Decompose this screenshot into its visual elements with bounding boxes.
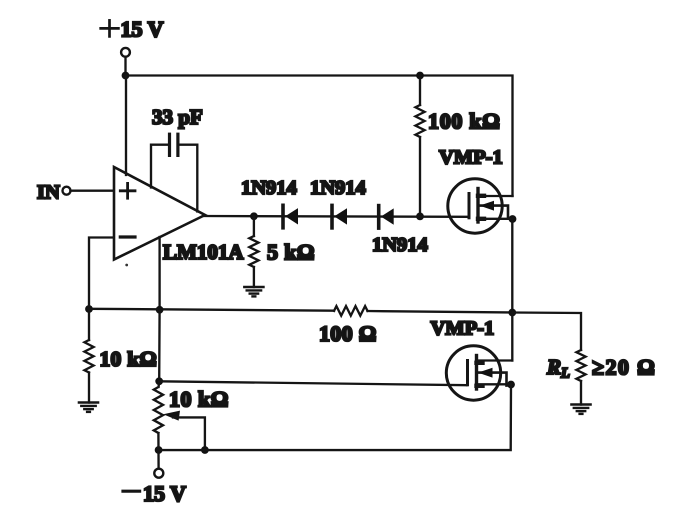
svg-text:VMP-1: VMP-1 xyxy=(439,147,503,169)
node pot bottom xyxy=(155,446,163,454)
wire 10k bottom lead xyxy=(88,373,90,403)
wire Q2 source lead xyxy=(477,383,512,385)
node V- line crossing xyxy=(156,306,164,314)
node Q2 source junction xyxy=(507,381,515,389)
resistor 100 kOhm xyxy=(415,105,424,137)
diode D1 1N914 xyxy=(283,205,298,228)
label 1N914 third xyxy=(372,234,428,256)
svg-text:1N914: 1N914 xyxy=(372,234,428,256)
node inverting input xyxy=(85,305,93,313)
wire 10k top lead xyxy=(88,309,90,340)
resistor RL xyxy=(576,350,585,381)
capacitor C1 33 pF xyxy=(170,134,178,155)
transistor Q1 VMP-1 xyxy=(448,179,508,233)
wire Q1 source lead xyxy=(478,218,513,220)
label IN xyxy=(37,182,60,204)
svg-text:15 V: 15 V xyxy=(121,17,164,42)
svg-text:≥20 Ω: ≥20 Ω xyxy=(592,355,656,380)
svg-text:10 kΩ: 10 kΩ xyxy=(100,347,158,371)
resistor 10 kOhm xyxy=(84,340,93,373)
potentiometer 10 kOhm xyxy=(154,381,205,450)
ground 10k xyxy=(79,403,98,412)
node output xyxy=(508,309,516,317)
wire cap left lead xyxy=(151,145,168,188)
wire RL bottom lead xyxy=(580,381,582,405)
wire top +15V rail xyxy=(126,76,513,197)
wire Q2 gate line xyxy=(159,381,466,385)
transistor Q2 VMP-1 xyxy=(446,346,506,400)
label VMP-1 upper xyxy=(439,147,503,169)
node top-left junction xyxy=(122,72,130,80)
wire feedback right xyxy=(368,311,513,313)
label -15 V xyxy=(123,481,186,506)
svg-text:1N914: 1N914 xyxy=(310,177,366,199)
svg-text:15 V: 15 V xyxy=(143,481,186,506)
wire 5k top lead xyxy=(253,216,255,236)
label 100 Ohm xyxy=(319,321,377,346)
diode D3 1N914 xyxy=(379,206,394,229)
resistor 100 Ohm xyxy=(334,306,368,316)
wire 100k bottom lead xyxy=(419,137,421,216)
wire Q2 drain lead xyxy=(477,359,513,361)
wire -15V stub xyxy=(157,433,160,469)
label 1N914 first xyxy=(241,177,297,199)
terminal IN xyxy=(63,187,71,195)
label 5 kOhm xyxy=(267,240,315,265)
wire op-amp V- down xyxy=(158,237,160,310)
node Q1 source junction xyxy=(509,215,517,223)
op-amp U1 LM101A xyxy=(114,167,205,266)
label >= 20 Ohm xyxy=(592,355,656,380)
svg-text:LM101A: LM101A xyxy=(163,240,244,264)
wire IN to op-amp + xyxy=(71,190,114,192)
svg-text:100 Ω: 100 Ω xyxy=(319,321,377,346)
label +15 V xyxy=(101,17,164,42)
label RL xyxy=(546,355,570,382)
svg-text:VMP-1: VMP-1 xyxy=(431,318,495,340)
ground 5k xyxy=(244,287,263,296)
svg-text:100 kΩ: 100 kΩ xyxy=(428,109,501,134)
node gate Q1 / 100k xyxy=(416,213,424,221)
wire 100k top lead xyxy=(419,76,421,106)
terminal +15V xyxy=(121,48,130,57)
svg-text:IN: IN xyxy=(37,182,60,204)
svg-text:5 kΩ: 5 kΩ xyxy=(267,240,315,265)
label 10 kOhm xyxy=(100,347,158,371)
node 5k tap xyxy=(250,212,258,220)
svg-text:33 pF: 33 pF xyxy=(152,105,203,129)
wire feedback left xyxy=(89,309,334,311)
wire right rail output to Q2 drain xyxy=(511,313,513,361)
wire bottom return xyxy=(159,385,511,451)
wire op-amp inverting input xyxy=(89,238,113,310)
wire V+ supply to op-amp xyxy=(125,76,127,176)
node wiper join xyxy=(201,446,209,454)
wire right rail Q1 source to output xyxy=(511,219,513,313)
wire +15V terminal to rail xyxy=(124,57,126,76)
svg-text:10 kΩ: 10 kΩ xyxy=(169,386,229,411)
resistor 5 kOhm xyxy=(249,236,258,267)
wire op-amp output to Q1 gate xyxy=(203,215,468,218)
wire V- line middle xyxy=(158,310,161,382)
label LM101A xyxy=(163,240,244,264)
terminal -15V xyxy=(154,469,163,478)
wire 5k bottom lead xyxy=(253,267,255,287)
label 1N914 second xyxy=(310,177,366,199)
diode D2 1N914 xyxy=(332,205,347,228)
wire cap right lead xyxy=(180,145,198,212)
svg-text:1N914: 1N914 xyxy=(241,177,297,199)
label VMP-1 lower xyxy=(431,318,495,340)
wire Q1 drain lead xyxy=(478,195,513,197)
wire output to RL xyxy=(512,313,581,351)
label 33 pF xyxy=(152,105,203,129)
ground RL xyxy=(571,405,590,414)
label 10 kOhm pot xyxy=(169,386,229,411)
node Q2 gate branch xyxy=(155,377,163,385)
label 100 kOhm xyxy=(428,109,501,134)
node 100k top xyxy=(416,72,424,80)
